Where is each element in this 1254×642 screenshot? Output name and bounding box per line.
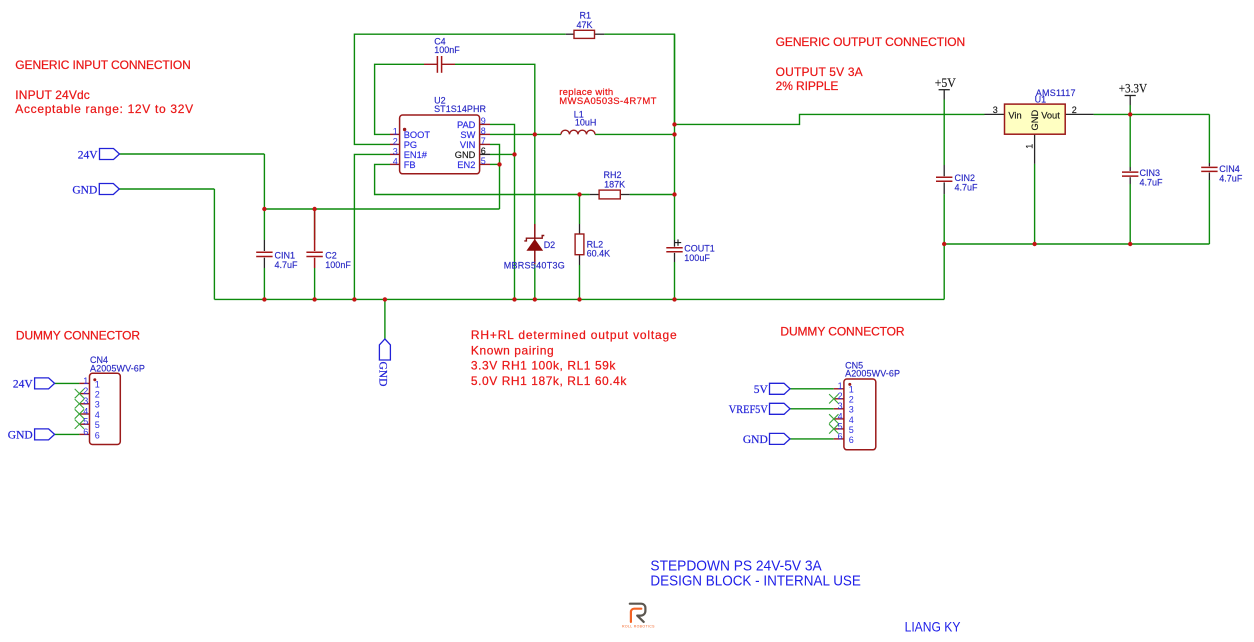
svg-text:1: 1 <box>83 376 88 386</box>
svg-text:3: 3 <box>95 400 100 410</box>
svg-text:U1: U1 <box>1035 95 1047 105</box>
capacitor CIN4 <box>1201 167 1217 171</box>
pin CN5.5 stub <box>834 428 844 430</box>
wire EN1 to ground <box>354 154 390 299</box>
wire CIN4 drop <box>1208 114 1210 163</box>
node 24V rail / C2 <box>312 207 316 211</box>
svg-text:Vin: Vin <box>1008 111 1021 121</box>
wire +3.3V down to CIN3 <box>1129 105 1131 167</box>
pin U2.5 stub <box>480 163 490 165</box>
label flag CN5 GND <box>770 433 791 444</box>
wire CIN2 top lead <box>943 165 945 176</box>
svg-text:4: 4 <box>83 406 88 416</box>
node bus CIN1 <box>262 297 266 301</box>
IC U2 body <box>400 115 480 174</box>
svg-text:DUMMY CONNECTOR: DUMMY CONNECTOR <box>780 325 905 339</box>
svg-text:4.7uF: 4.7uF <box>1140 177 1164 187</box>
wire CIN4 bottom <box>1208 180 1210 244</box>
label flag GND bottom <box>379 339 390 360</box>
pin CN5.3 stub <box>834 408 844 410</box>
svg-text:8: 8 <box>481 126 486 136</box>
svg-text:4: 4 <box>95 410 100 420</box>
svg-text:LIANG KY: LIANG KY <box>905 619 961 635</box>
svg-text:SW: SW <box>460 130 475 140</box>
label flag CN5 5V <box>770 383 791 394</box>
svg-text:3.3V RH1 100k, RL1 59k: 3.3V RH1 100k, RL1 59k <box>471 359 616 373</box>
svg-text:1: 1 <box>838 381 843 391</box>
logo orange L stroke <box>631 609 641 622</box>
svg-text:EN2: EN2 <box>457 160 475 170</box>
dark leads <box>264 34 1209 268</box>
svg-text:5V: 5V <box>754 384 769 396</box>
wire CIN2 bottom <box>943 194 945 244</box>
wire L1 to output node <box>595 133 675 135</box>
wire +5V vertical <box>943 100 945 166</box>
resistor RH2 <box>599 190 620 199</box>
svg-text:Vout: Vout <box>1041 111 1060 121</box>
CN5 pin numbers outside <box>838 381 843 441</box>
node bus PAD <box>512 297 516 301</box>
resistor RL2 <box>575 234 584 255</box>
U2 pin1 dot <box>403 128 406 131</box>
svg-text:DUMMY CONNECTOR: DUMMY CONNECTOR <box>16 329 140 343</box>
wire FB to divider <box>375 164 590 194</box>
wire Vout row <box>1094 113 1210 115</box>
svg-text:1: 1 <box>393 127 398 137</box>
wire PAD down to GND <box>490 124 515 299</box>
wire RH2 left lead <box>590 194 600 196</box>
svg-text:VREF5V: VREF5V <box>729 404 769 416</box>
wire R1 to output node <box>604 34 674 124</box>
wire COUT1 bottom lead <box>674 253 676 262</box>
svg-text:100uF: 100uF <box>684 253 710 263</box>
svg-text:7: 7 <box>481 136 486 146</box>
svg-text:GND: GND <box>455 150 476 160</box>
svg-text:FB: FB <box>404 160 416 170</box>
wire CIN4 top lead <box>1208 163 1210 166</box>
wire GND input horizontal <box>119 188 214 190</box>
svg-text:GND: GND <box>377 362 389 387</box>
wire COUT1 bottom to ground bus <box>674 262 676 299</box>
svg-text:2: 2 <box>838 391 843 401</box>
wire RH2 right lead <box>620 194 630 196</box>
capacitor C2 <box>306 209 322 268</box>
svg-text:2: 2 <box>393 137 398 147</box>
node output L1 <box>672 132 676 136</box>
node bus RL2 <box>577 297 581 301</box>
wire SW to L1 <box>490 133 561 135</box>
CN5 pin names blue inside <box>849 385 854 445</box>
CN4 pin1 dot <box>93 378 96 381</box>
svg-text:2: 2 <box>95 390 100 400</box>
no-connect CN4.4 <box>75 409 84 418</box>
svg-text:GND: GND <box>1030 110 1040 131</box>
pin CN4.1 stub <box>79 382 89 384</box>
svg-text:MBRS540T3G: MBRS540T3G <box>504 261 565 271</box>
wire CN5 pin1 from 5V flag <box>790 388 834 390</box>
diode D2 leads <box>534 224 536 264</box>
svg-text:3: 3 <box>838 401 843 411</box>
wire U1 Vout lead <box>1065 113 1093 115</box>
wire CIN2 bottom lead <box>943 182 945 194</box>
svg-text:2: 2 <box>849 395 854 405</box>
wire CN5 pin6 from GND flag <box>790 438 834 440</box>
svg-text:2: 2 <box>83 386 88 396</box>
svg-text:GND: GND <box>72 184 97 196</box>
node bus C2 <box>312 297 316 301</box>
node bus COUT1 <box>672 297 676 301</box>
svg-text:DESIGN BLOCK - INTERNAL USE: DESIGN BLOCK - INTERNAL USE <box>650 573 861 590</box>
wire 24V rail horizontal <box>264 208 499 210</box>
connector CN4 body <box>90 373 121 444</box>
svg-text:GENERIC OUTPUT CONNECTION: GENERIC OUTPUT CONNECTION <box>776 35 966 49</box>
regulator U1 body <box>1005 104 1066 134</box>
svg-text:1: 1 <box>1025 144 1035 149</box>
wire CN4 pin1 from 24V flag <box>55 382 80 384</box>
svg-text:CIN2: CIN2 <box>955 173 976 183</box>
svg-text:24V: 24V <box>78 149 99 161</box>
wire VIN to 24V rail <box>490 144 500 209</box>
svg-text:GENERIC INPUT CONNECTION: GENERIC INPUT CONNECTION <box>15 58 191 72</box>
svg-text:EN1#: EN1# <box>404 150 428 160</box>
no-connect X marks <box>75 389 839 434</box>
U2 pin stubs dark red <box>79 124 844 439</box>
node EN2 / VIN <box>497 162 501 166</box>
svg-text:OUTPUT 5V 3A: OUTPUT 5V 3A <box>776 65 863 79</box>
svg-text:ST1S14PHR: ST1S14PHR <box>434 104 486 114</box>
label flag CN4 24V <box>35 378 55 389</box>
svg-text:100nF: 100nF <box>434 45 460 55</box>
wire RL2 top <box>579 195 581 225</box>
svg-text:5: 5 <box>83 417 88 427</box>
svg-text:5: 5 <box>838 421 843 431</box>
svg-text:4: 4 <box>838 411 843 421</box>
node RH2 output <box>672 192 676 196</box>
wire U1 GND down <box>1034 164 1036 244</box>
svg-text:5: 5 <box>95 420 100 430</box>
wire D2 anode to ground bus <box>534 264 536 299</box>
svg-text:D2: D2 <box>544 240 556 250</box>
wire U1 Vin lead <box>985 113 1005 115</box>
wire 24V input vertical drop <box>263 154 265 209</box>
pin CN5.6 stub <box>834 438 844 440</box>
svg-text:3: 3 <box>849 405 854 415</box>
svg-text:24V: 24V <box>13 379 34 391</box>
pin CN4.4 stub <box>79 413 89 415</box>
capacitor CIN1 <box>256 252 272 256</box>
wire SW node down to D2 <box>534 134 536 224</box>
capacitor CIN2 <box>936 177 952 181</box>
node SW / C4 / D2 <box>533 132 537 136</box>
global label flags <box>35 149 790 445</box>
svg-text:+5V: +5V <box>935 76 956 90</box>
label flag CN5 VREF5V <box>770 403 791 414</box>
wire R1 right lead <box>595 33 605 35</box>
svg-text:Known pairing: Known pairing <box>471 343 554 357</box>
wire output ground row <box>944 243 1209 245</box>
node +3.3V tap <box>1128 112 1132 116</box>
CN4 pin numbers outside <box>83 376 88 437</box>
CN5 pin1 dot <box>848 383 851 386</box>
svg-text:4.7uF: 4.7uF <box>955 183 979 193</box>
node bus D2 <box>533 297 537 301</box>
svg-text:GND: GND <box>743 434 768 446</box>
power +5V stem <box>943 90 945 100</box>
wire bottom ground bus <box>214 298 944 300</box>
wire ground bus riser to output section <box>943 244 945 299</box>
node out gnd U1 <box>1032 242 1036 246</box>
node out gnd CIN3 <box>1128 242 1132 246</box>
wire RL2 bottom <box>579 265 581 299</box>
no-connect CN4.5 <box>75 420 84 429</box>
svg-text:BOOT: BOOT <box>404 130 431 140</box>
svg-text:4: 4 <box>849 415 854 425</box>
pin CN5.4 stub <box>834 418 844 420</box>
pin U2.3 stub <box>390 153 400 155</box>
wire RL2 top lead <box>579 224 581 234</box>
wire RH2 right to output node <box>630 194 675 196</box>
pin CN4.6 stub <box>79 433 89 435</box>
pin U2.1 stub <box>390 133 400 135</box>
svg-text:5: 5 <box>849 425 854 435</box>
svg-text:6: 6 <box>481 146 486 156</box>
capacitor COUT1 <box>666 248 682 252</box>
svg-text:5: 5 <box>481 156 486 166</box>
wire GND pin to PAD net <box>490 153 515 155</box>
svg-text:PAD: PAD <box>457 120 476 130</box>
pin U2.8 stub <box>480 133 490 135</box>
wire CIN4 bottom lead <box>1208 173 1210 181</box>
svg-text:6: 6 <box>849 435 854 445</box>
pin U2.2 stub <box>390 143 400 145</box>
wire CIN3 bottom lead <box>1129 177 1131 184</box>
svg-text:6: 6 <box>838 431 843 441</box>
svg-text:CIN3: CIN3 <box>1140 168 1161 178</box>
svg-text:GND: GND <box>8 430 33 442</box>
wire EN2 to VIN net <box>490 163 500 165</box>
wire COUT1 top lead <box>674 240 676 247</box>
wire BOOT up to C4 <box>375 64 424 134</box>
wire CIN1 top lead <box>263 240 265 251</box>
wire CN4 pin6 from GND flag <box>55 433 80 435</box>
wire R1 left lead <box>566 33 574 35</box>
connector CN5 body <box>844 379 876 450</box>
svg-text:ROLL ROBOTICS: ROLL ROBOTICS <box>622 624 655 628</box>
node bus GND flag <box>383 297 387 301</box>
no-connect CN4.3 <box>75 399 84 408</box>
svg-text:6: 6 <box>95 430 100 440</box>
wire RL2 bottom lead <box>579 255 581 265</box>
pin CN4.5 stub <box>79 423 89 425</box>
svg-text:3: 3 <box>393 147 398 157</box>
svg-text:6: 6 <box>83 427 88 437</box>
wire C2 top <box>314 209 316 240</box>
power +3.3V bar <box>1125 95 1136 97</box>
svg-text:4.7uF: 4.7uF <box>1219 173 1243 183</box>
label flag 24V input <box>100 149 120 160</box>
pin U2.6 stub black <box>480 153 490 155</box>
node out gnd CIN2 <box>942 242 946 246</box>
svg-text:CIN4: CIN4 <box>1219 164 1240 174</box>
capacitor C4 leads <box>424 63 455 65</box>
svg-text:2: 2 <box>1072 105 1077 115</box>
node bus EN1 <box>352 297 356 301</box>
pin CN5.2 stub <box>834 398 844 400</box>
svg-text:10uH: 10uH <box>575 118 597 128</box>
wire U1 GND lead <box>1034 134 1036 164</box>
wire 24V input horizontal <box>120 153 265 155</box>
svg-text:Acceptable range: 12V to 32V: Acceptable range: 12V to 32V <box>15 102 193 116</box>
svg-text:60.4K: 60.4K <box>587 248 611 258</box>
wire CIN1 top <box>263 209 265 240</box>
resistor R1 <box>574 30 595 38</box>
pin U2.9 stub <box>480 123 490 125</box>
pin U2.7 stub <box>480 143 490 145</box>
wire CIN1 bottom <box>263 268 265 299</box>
diode D2 schottky bar <box>524 236 544 241</box>
wire CN5 pin3 from VREF5V flag <box>790 408 834 410</box>
wire C2 bottom <box>314 268 316 299</box>
inductor L1 <box>561 130 595 134</box>
node output top <box>672 122 676 126</box>
no-connect CN4.2 <box>75 389 84 398</box>
diode D2 triangle <box>527 240 542 250</box>
svg-text:RH+RL determined output voltag: RH+RL determined output voltage <box>471 328 677 342</box>
capacitor C4 plates <box>437 56 441 73</box>
power +5V bar <box>939 89 950 91</box>
svg-text:C2: C2 <box>325 251 337 261</box>
svg-text:187K: 187K <box>604 179 625 189</box>
wire output node vertical <box>674 34 676 240</box>
svg-text:A2005WV-6P: A2005WV-6P <box>90 363 145 373</box>
node GND pin / PAD <box>512 152 516 156</box>
wire PG up to R1 <box>354 34 565 144</box>
wire output row to +5V <box>675 114 985 124</box>
svg-text:VIN: VIN <box>460 140 476 150</box>
pin CN5.1 stub <box>834 388 844 390</box>
svg-text:2% RIPPLE: 2% RIPPLE <box>776 79 839 93</box>
svg-text:47K: 47K <box>577 20 593 30</box>
CN4 pin names blue inside <box>95 379 100 440</box>
svg-text:9: 9 <box>481 116 486 126</box>
power +3.3V stem <box>1129 96 1131 106</box>
svg-text:3: 3 <box>83 396 88 406</box>
wire CIN1 bottom lead <box>263 258 265 268</box>
node FB divider <box>577 192 581 196</box>
svg-text:+3.3V: +3.3V <box>1119 82 1147 96</box>
svg-text:PG: PG <box>404 140 417 150</box>
wire CIN3 top lead <box>1129 167 1131 171</box>
wire CIN3 bottom <box>1129 184 1131 244</box>
wire GND input vertical drop <box>213 189 215 299</box>
svg-text:3: 3 <box>993 105 998 115</box>
svg-text:5.0V RH1 187k, RL1 60.4k: 5.0V RH1 187k, RL1 60.4k <box>471 374 627 388</box>
node 24V rail / CIN1 <box>262 207 266 211</box>
svg-text:4: 4 <box>393 157 398 167</box>
capacitor CIN3 <box>1122 172 1138 176</box>
wire C4 right to SW node <box>455 64 535 134</box>
svg-text:INPUT 24Vdc: INPUT 24Vdc <box>15 88 90 102</box>
label flag GND input <box>99 184 119 195</box>
wire GND flag drop <box>384 299 386 339</box>
svg-text:RH2: RH2 <box>604 170 622 180</box>
svg-text:1: 1 <box>849 385 854 395</box>
svg-text:MWSA0503S-4R7MT: MWSA0503S-4R7MT <box>559 96 657 107</box>
svg-text:4.7uF: 4.7uF <box>275 260 299 270</box>
label flag CN4 GND <box>35 429 55 440</box>
COUT1 plus sign <box>675 239 681 245</box>
pin CN4.2 stub <box>79 393 89 395</box>
no-connect CN5.4 <box>829 414 838 423</box>
svg-text:A2005WV-6P: A2005WV-6P <box>845 369 900 379</box>
svg-text:CIN1: CIN1 <box>275 251 296 261</box>
no-connect CN5.5 <box>829 424 838 433</box>
logo gray R stroke <box>630 604 646 622</box>
pin U2.4 stub <box>390 163 400 165</box>
no-connect CN5.2 <box>829 394 838 403</box>
svg-text:1: 1 <box>95 379 100 389</box>
svg-text:100nF: 100nF <box>325 260 351 270</box>
pin CN4.3 stub <box>79 403 89 405</box>
junction dots <box>262 112 1132 301</box>
